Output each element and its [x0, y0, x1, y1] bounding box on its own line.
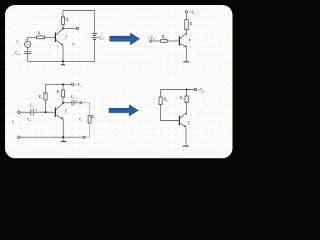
wire rail to battery: [94, 11, 96, 34]
transistor T3: [55, 103, 63, 119]
wire input to Ci: [20, 111, 31, 113]
wire battery to rail: [94, 40, 96, 62]
wire Rb to input: [152, 40, 161, 42]
voltage source VS1: [25, 41, 31, 47]
wire Rc to collector: [186, 30, 188, 36]
wire Rb to base: [161, 105, 180, 121]
wire rail to Rb: [160, 90, 162, 98]
dashed wire RL to rail: [85, 123, 89, 137]
resistor Rb: [159, 97, 162, 105]
wire Ci to base: [33, 111, 55, 113]
wire Cin to rail: [27, 54, 29, 62]
wire terminal to Rc: [186, 13, 188, 20]
wire emitter down: [62, 120, 64, 138]
resistor Rs: [37, 36, 45, 39]
ground: [183, 61, 189, 63]
node emitter rail: [62, 136, 64, 138]
wire collector to output: [63, 27, 76, 29]
wire emitter down: [62, 46, 64, 62]
base wire: [167, 40, 179, 42]
junction emitter-rail: [62, 60, 64, 62]
capacitor Co: [72, 100, 74, 105]
panel: [5, 5, 233, 158]
wire Rc to collector node: [62, 97, 64, 103]
resistor Rb: [161, 40, 168, 43]
terminal bottom left: [18, 136, 21, 139]
node rail Rc: [62, 83, 64, 85]
transistor T2: [179, 33, 186, 47]
plus mark Co: [76, 100, 77, 101]
wire emitter to ground: [185, 127, 187, 146]
plus mark Ci: [36, 110, 37, 111]
black background: [0, 0, 240, 163]
resistor Rc: [185, 96, 188, 103]
wire Rc to rail: [62, 11, 64, 18]
input terminal: [18, 111, 21, 114]
wire Rs to base: [45, 36, 56, 38]
arrow top: [110, 33, 140, 44]
resistor Rc: [61, 90, 64, 97]
input terminal: [150, 40, 152, 42]
output terminal: [80, 102, 82, 104]
bottom rail wire: [20, 136, 83, 138]
resistor Rb: [44, 93, 47, 100]
plus mark source: [25, 39, 26, 40]
wire source to Cin: [27, 47, 29, 51]
capacitor Cin: [24, 52, 31, 54]
top rail wire: [63, 10, 95, 12]
wire Co to output terminal: [74, 102, 80, 104]
output terminal: [76, 27, 78, 29]
resistor RL: [88, 115, 91, 123]
top rail wire: [161, 89, 195, 91]
arrow bottom: [109, 105, 138, 116]
node rail: [186, 88, 188, 90]
wire emitter to ground: [186, 47, 188, 61]
resistor Rc: [61, 17, 64, 24]
wire Rb to base node: [45, 100, 47, 112]
terminal +Vcc: [194, 88, 196, 90]
transistor T4: [179, 113, 186, 128]
ground: [61, 137, 66, 141]
wire base loop top: [28, 37, 37, 41]
terminal +Vcc: [72, 83, 74, 85]
wire rail to Rc: [186, 90, 188, 97]
ground: [183, 145, 189, 147]
dashed wire to RL: [82, 103, 89, 116]
resistor Rc: [185, 20, 188, 30]
capacitor Ci: [31, 109, 33, 115]
battery Vcc: [92, 34, 98, 40]
terminal bottom right: [83, 136, 85, 138]
terminal +Vcc: [185, 11, 187, 13]
node base: [44, 111, 46, 113]
wire Rc to collector: [186, 103, 188, 116]
node collector: [62, 27, 64, 29]
node collector: [62, 102, 64, 104]
wire rail to Rb: [45, 84, 47, 93]
wire rail to Rc: [62, 84, 64, 90]
ground: [61, 61, 65, 65]
wire collector to Co: [63, 102, 72, 104]
transistor T1: [55, 29, 63, 46]
top rail wire: [46, 83, 72, 85]
bottom rail wire: [28, 60, 95, 62]
wire collector to Rc: [62, 24, 64, 28]
